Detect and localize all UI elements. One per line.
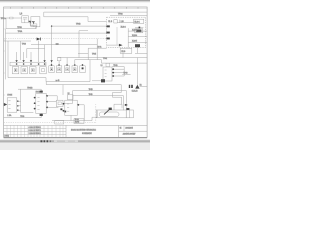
wire step x88	[87, 17, 89, 22]
arrow into HY05	[4, 103, 7, 106]
switch S3	[30, 67, 36, 74]
HY05 right pins	[17, 100, 19, 111]
RY40 top pin	[40, 89, 42, 93]
switch S8	[72, 66, 77, 73]
wire left rail x5.5	[5, 29, 7, 80]
svg-text:TP40: TP40	[113, 65, 117, 67]
wire y48.2	[88, 47, 106, 49]
svg-text:L5: L5	[68, 93, 70, 95]
wire rail y15.6 right	[110, 15, 147, 17]
arrow terminal 1	[15, 60, 17, 62]
wire y30.7	[79, 30, 88, 32]
U2 stub 1 dot	[112, 68, 114, 70]
wire drop x43.8	[43, 12, 45, 17]
wire K3 down	[136, 47, 138, 53]
svg-text:TP39: TP39	[20, 116, 24, 118]
S6 top dot	[58, 64, 60, 66]
transistor Q3 blob	[101, 79, 105, 82]
wire left stub x6	[5, 18, 7, 29]
box D20	[120, 48, 132, 53]
wire y25.6	[30, 25, 36, 27]
arrow terminal 5	[50, 60, 52, 62]
wire vertical x137.4	[136, 58, 138, 85]
wire long y84.6	[46, 84, 121, 86]
wire drop x124.2	[123, 67, 125, 76]
wire y22.6	[117, 22, 133, 24]
transistor Q1 triangle	[135, 85, 139, 89]
zone ticks top border	[10, 7, 138, 9]
switch S2	[21, 67, 27, 74]
svg-text:TP4A: TP4A	[18, 30, 23, 33]
S9 inner dot	[82, 67, 84, 69]
pin blob y26	[106, 25, 109, 27]
dashed wire y38.6	[4, 38, 106, 40]
wire TP4B run y26	[52, 25, 107, 27]
svg-text:BASIC MOUNTING HYDRAULIC: BASIC MOUNTING HYDRAULIC	[71, 128, 97, 131]
L5 left pins	[63, 103, 65, 112]
arrow terminal 3	[30, 60, 32, 62]
wire TP52 to L4	[4, 17, 10, 19]
contact blob b	[64, 111, 66, 113]
wire R1 to L4	[13, 17, 22, 19]
RY40 inner ticks	[37, 98, 39, 110]
wire K1 bottom	[35, 27, 37, 29]
sheet bottom heavy border	[4, 137, 148, 139]
svg-text:XL20 3: XL20 3	[132, 29, 137, 31]
small blob n1	[125, 104, 127, 106]
wire y74.6	[122, 74, 130, 76]
small label box left	[55, 120, 64, 124]
revision table v-lines	[7, 125, 63, 137]
svg-text:3 1-4.1 R1 W.07 1: 3 1-4.1 R1 W.07 1	[29, 130, 41, 132]
module U2 box	[103, 67, 112, 81]
pin blob y38.6	[106, 38, 109, 40]
RY40 right pins	[46, 95, 48, 108]
wire top rail y12	[44, 11, 147, 13]
inner vertical x117	[116, 27, 118, 45]
cylinder arrow	[104, 109, 110, 115]
sheet border inner top line	[4, 8, 148, 10]
pin blob y33	[106, 32, 109, 34]
connector stub XL20-4	[128, 36, 147, 38]
svg-text:4 1-4.1 R2 W.08 1: 4 1-4.1 R2 W.08 1	[29, 127, 41, 129]
L5 right pin	[78, 104, 80, 106]
wire y95.6	[73, 96, 124, 111]
wire y59.6	[75, 59, 102, 61]
wire TP46 run	[52, 110, 97, 120]
wire y48.5 corner	[27, 49, 45, 59]
wire join x36.2	[35, 26, 37, 29]
wire node below C1	[29, 24, 31, 26]
module K1 inner contact	[32, 21, 35, 23]
svg-text:RY40: RY40	[36, 92, 41, 94]
page background	[0, 0, 150, 150]
diode CR1	[37, 38, 41, 41]
wire y27.7	[135, 27, 143, 29]
svg-text:TP40: TP40	[89, 94, 93, 96]
svg-text:HY05: HY05	[7, 94, 12, 96]
coil L2 top box	[106, 63, 110, 66]
wire y53.6	[78, 53, 88, 55]
pin line	[119, 20, 121, 23]
cylinder arrow head	[109, 108, 112, 110]
module K1 box	[31, 17, 40, 27]
title h y131.2	[119, 130, 148, 132]
wire L5 right	[78, 105, 84, 121]
HY05 pin stubs	[17, 101, 21, 110]
capacitor C1 polarized	[29, 21, 32, 24]
wire drop x38.6	[38, 41, 40, 63]
svg-text:XL20 1: XL20 1	[134, 21, 139, 23]
connector XL20-1 box	[134, 19, 144, 23]
wire rail y57.6	[58, 57, 147, 59]
caption marks in bottom band	[41, 140, 79, 142]
solenoid L5 box	[65, 100, 77, 115]
wire drop x16.6	[16, 52, 18, 60]
wire y80.8	[92, 80, 101, 82]
bus terminal dots	[16, 63, 46, 65]
area below page	[0, 143, 150, 150]
wire drop x44.6	[44, 45, 46, 63]
switch S9	[80, 66, 85, 73]
svg-text:TP38: TP38	[118, 13, 123, 15]
relay RY40 box	[36, 93, 46, 113]
S7 top dot	[66, 64, 68, 66]
arrow terminal 4	[43, 60, 45, 62]
svg-text:5,5A,B: 5,5A,B	[132, 90, 138, 93]
svg-text:ZL20: ZL20	[121, 51, 125, 53]
coil L4 box	[22, 16, 29, 23]
wire drop x79	[78, 31, 80, 58]
small v x124	[123, 125, 125, 131]
U2 stub 1	[112, 68, 124, 70]
switch S6	[56, 66, 61, 73]
dashed chassis wire	[4, 122, 96, 124]
resistor R1	[10, 17, 13, 19]
wire drop x51.6	[51, 26, 53, 66]
cylinder enclosure box	[96, 110, 126, 118]
note box above title	[74, 119, 84, 124]
wire y90.6	[73, 91, 127, 111]
terminal bus bar	[10, 62, 46, 66]
relay K3 dark body	[135, 44, 140, 47]
wire TP46B	[18, 88, 41, 90]
svg-text:XL20 2: XL20 2	[121, 27, 126, 29]
svg-text:TP4B: TP4B	[89, 89, 93, 91]
wire into D20	[107, 44, 119, 46]
L5 inner ticks	[67, 104, 69, 111]
dashed enclosure XL20	[107, 17, 146, 47]
zone ticks left border	[4, 18, 5, 95]
wire drop x20.6	[20, 41, 22, 60]
module K1 inner box	[33, 24, 37, 27]
RY40 bottom pin	[40, 113, 42, 117]
U2 stub 2	[112, 72, 124, 74]
wire TP39 run	[4, 117, 42, 119]
contact blob a	[60, 108, 62, 110]
staircase wire A	[112, 85, 121, 105]
wire y86.6	[140, 86, 148, 88]
svg-text:TP46: TP46	[22, 43, 26, 45]
wire vertical x97.2	[96, 39, 98, 60]
svg-text:TP41: TP41	[103, 58, 107, 60]
sheet border frame	[4, 7, 148, 137]
junction dot TP39	[139, 27, 141, 29]
RY40 left pins	[34, 97, 36, 110]
scanner band bottom	[0, 139, 150, 142]
wire drop x67.1	[66, 58, 68, 66]
wire y53.4	[135, 52, 147, 54]
S5 top dot	[51, 64, 53, 66]
svg-text:2 03 11: 2 03 11	[4, 136, 9, 138]
svg-text:L2: L2	[101, 65, 103, 67]
svg-text:SZ: SZ	[120, 128, 122, 130]
HY05 inner ticks	[8, 101, 10, 109]
switch S7	[64, 66, 69, 73]
marks 2A	[129, 85, 133, 88]
tick on wire y44.6	[56, 43, 59, 46]
connector J2 spine	[127, 28, 129, 47]
wire vertical x20.6	[20, 89, 22, 112]
U2 inner ticks	[105, 70, 107, 77]
wire y103.4	[63, 102, 73, 104]
svg-text:TP50: TP50	[17, 27, 22, 29]
title divider x66	[65, 125, 67, 137]
arrow pin D20	[119, 44, 123, 47]
valve HY05 box	[7, 98, 17, 112]
svg-text:XL20 4: XL20 4	[132, 35, 137, 37]
title block top line	[4, 124, 148, 126]
staircase wire B	[114, 104, 122, 110]
wire drop x59.1	[58, 61, 60, 66]
wire y101.6	[47, 101, 56, 103]
wire L5 bottom drop	[70, 115, 72, 120]
wire vertical x88.2	[87, 48, 89, 60]
switch S1	[12, 67, 18, 74]
relay contact box	[114, 20, 117, 23]
cylinder body pill	[99, 112, 119, 117]
wire drop x101.4	[100, 60, 102, 64]
connector stub XL20-3	[128, 30, 147, 32]
wire drop x23.6	[23, 52, 25, 60]
wire y66.6	[112, 66, 124, 68]
U2 stub 3 dot	[112, 75, 114, 77]
svg-text:2 1-4.0 R0 W.06 1: 2 1-4.0 R0 W.06 1	[29, 133, 41, 135]
svg-text:m 40: m 40	[56, 80, 60, 82]
wire drop x74.8	[74, 60, 76, 66]
switch S4	[40, 67, 46, 74]
revision table h-lines	[4, 128, 66, 134]
scanner band top	[0, 0, 150, 1]
switch S5	[49, 66, 54, 73]
svg-text:NOTE: NOTE	[75, 121, 79, 123]
svg-text:TP46: TP46	[75, 119, 79, 121]
enclosure switch panel	[8, 41, 90, 82]
connector stub XL20-5	[128, 41, 147, 43]
wire TP50 run	[6, 28, 36, 30]
wire y112.6	[21, 112, 34, 114]
svg-text:XL20 5: XL20 5	[132, 41, 137, 43]
wire rail y63.1	[101, 62, 147, 64]
wire step from enclosure	[45, 82, 47, 85]
title divider x118.6	[118, 125, 120, 137]
wire vertical x72.6	[72, 91, 74, 104]
U2 stub 3	[112, 75, 124, 77]
junction dot x51.6	[51, 25, 52, 26]
wire drop x63	[62, 85, 64, 95]
component m box	[57, 57, 61, 60]
dotted vertical x95.8	[95, 104, 97, 122]
svg-text:TP45: TP45	[92, 54, 96, 56]
wire drop x31	[30, 52, 32, 60]
svg-text:TP40: TP40	[123, 73, 127, 75]
box C fuse	[56, 100, 63, 106]
wire TP4A run y33.1	[6, 32, 107, 34]
cap box mark	[126, 108, 129, 110]
cylinder cap box	[126, 110, 133, 118]
wire y107.4	[47, 106, 58, 108]
relay K2 dark body	[135, 29, 143, 33]
svg-text:SCHEMATIC: SCHEMATIC	[82, 132, 93, 135]
coil L4 inner marks	[23, 17, 27, 22]
wire rail y16.8	[44, 16, 88, 18]
wire y41	[4, 40, 31, 42]
S8 top dot	[74, 64, 76, 66]
wire D20 down	[122, 53, 124, 57]
U2 stub 2 dot	[112, 72, 114, 74]
S9 top dot	[82, 64, 84, 66]
arrow terminal 2	[22, 60, 24, 62]
svg-text:TP46B: TP46B	[27, 87, 33, 89]
L5 top box	[67, 95, 73, 100]
wire y44.6	[31, 44, 97, 46]
wire y95.8	[47, 96, 57, 100]
wire y21.5	[88, 21, 106, 23]
